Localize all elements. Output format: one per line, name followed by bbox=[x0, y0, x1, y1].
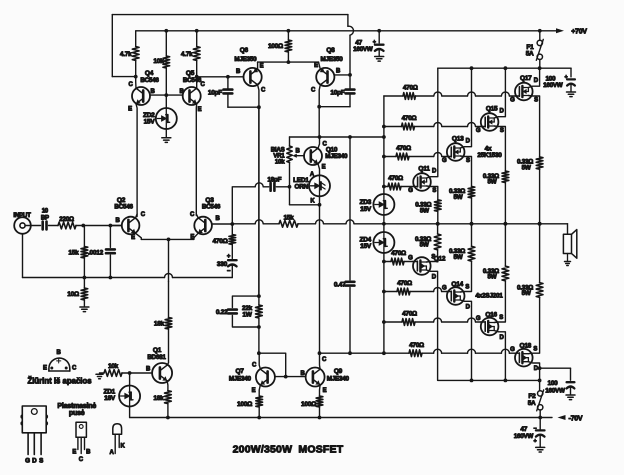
transistor Q13 2SK1530 bbox=[447, 143, 465, 161]
label E (Q10) bbox=[322, 165, 326, 171]
label 0.33ohm (Q17) bbox=[517, 159, 533, 166]
label 0.33ohm (Q14) bbox=[449, 248, 465, 255]
capacitor 330uF bbox=[228, 260, 237, 277]
label Q9 bbox=[334, 368, 343, 375]
svg-text:MJE350: MJE350 bbox=[321, 56, 344, 63]
wire ground bus bbox=[23, 274, 233, 278]
speaker bbox=[563, 224, 576, 266]
label B (Q1) bbox=[146, 367, 151, 373]
resistor 15k input bbox=[81, 226, 88, 278]
svg-text:INPUT: INPUT bbox=[13, 212, 31, 219]
svg-text:S: S bbox=[466, 158, 470, 164]
svg-text:E: E bbox=[322, 165, 326, 171]
label E (TO-126) bbox=[72, 449, 76, 455]
capacitor 0.47 bbox=[346, 137, 355, 353]
node Q18 source/bus bbox=[538, 222, 542, 226]
label BP (input cap) bbox=[41, 216, 49, 222]
capacitor 0.22 branch bbox=[228, 296, 259, 327]
input jack bbox=[14, 217, 40, 234]
label D (Q15) bbox=[500, 108, 505, 114]
svg-text:220Ω: 220Ω bbox=[59, 216, 74, 223]
label B (Q9) bbox=[300, 371, 305, 377]
wire Q15 source bbox=[494, 126, 505, 171]
node 100ohm bottom bbox=[287, 60, 291, 64]
label 10k bbox=[153, 58, 164, 65]
node base link / 10k bbox=[164, 93, 168, 97]
svg-text:+: + bbox=[373, 39, 376, 45]
node Q12 source/bus bbox=[436, 222, 440, 226]
label D (Q17) bbox=[534, 78, 539, 84]
node 10k top bbox=[164, 29, 168, 33]
label MJE340 (Q9) bbox=[327, 376, 350, 383]
svg-text:470Ω: 470Ω bbox=[402, 311, 417, 318]
svg-text:470Ω: 470Ω bbox=[403, 85, 418, 92]
transistor Q8 MJE350 bbox=[316, 62, 334, 107]
wire Q3 base to fb node bbox=[212, 223, 232, 225]
node 100ohm top bbox=[287, 29, 291, 33]
label F2 bbox=[528, 393, 536, 400]
svg-text:E: E bbox=[198, 107, 202, 113]
label 4x bbox=[485, 145, 492, 152]
svg-text:10pF: 10pF bbox=[208, 90, 222, 97]
ground (47 bottom) bbox=[536, 447, 545, 452]
resistor 4.7k (Q4 load) bbox=[132, 31, 139, 77]
wire Q15 gate row bbox=[384, 123, 481, 130]
label 160VW (top) bbox=[543, 82, 563, 89]
label 470ohm (Q11 gate) bbox=[388, 175, 403, 182]
label BD681 bbox=[147, 354, 166, 361]
label G (Q15) bbox=[476, 128, 481, 134]
label 4.7k bbox=[120, 51, 132, 58]
transistor Q7 MJE340 bbox=[256, 353, 275, 396]
label BC546 (Q4) bbox=[140, 77, 159, 84]
svg-text:5W: 5W bbox=[454, 254, 463, 261]
svg-text:100Ω: 100Ω bbox=[301, 401, 316, 408]
label E (Q4) bbox=[128, 107, 132, 113]
text Ziurint is apacios bbox=[27, 377, 92, 386]
svg-text:100Ω: 100Ω bbox=[237, 401, 252, 408]
capacitor 10pF (Q8) bbox=[319, 75, 354, 107]
wire +70V rail bbox=[136, 28, 564, 33]
node Q4 collector bbox=[134, 75, 138, 79]
label B (Q4) bbox=[150, 89, 155, 95]
transistor Q2 BC546 bbox=[122, 214, 142, 239]
svg-text:470Ω: 470Ω bbox=[397, 280, 412, 287]
node P bus Q14 bbox=[470, 379, 474, 383]
transistor Q18 2SJ201 bbox=[515, 349, 533, 367]
label S (Q17) bbox=[534, 97, 538, 103]
svg-text:5W: 5W bbox=[487, 274, 496, 281]
label S (Q11) bbox=[432, 188, 436, 194]
wire Q8 base to node bbox=[334, 74, 350, 76]
label 18pF bbox=[267, 176, 281, 183]
wire Q13 drain bbox=[460, 68, 471, 148]
svg-text:E: E bbox=[252, 388, 256, 394]
wire Q11 gate row bbox=[384, 183, 413, 190]
label Q4 bbox=[145, 70, 154, 77]
label G (TO-3P) bbox=[25, 457, 30, 464]
label 15k (input) bbox=[68, 249, 79, 256]
label S (Q14) bbox=[465, 285, 469, 291]
label C (Q10) bbox=[322, 141, 327, 147]
svg-text:−: − bbox=[534, 426, 537, 432]
svg-text:BC546: BC546 bbox=[140, 77, 159, 84]
capacitor 100/160VW (top) bbox=[567, 68, 575, 91]
label A (LED pkg) bbox=[109, 450, 114, 456]
label C (TO-126) bbox=[79, 457, 84, 463]
wire N drain bus bbox=[438, 67, 571, 69]
wire -70V rail bbox=[130, 415, 566, 420]
svg-text:+70V: +70V bbox=[571, 29, 587, 36]
svg-text:470Ω: 470Ω bbox=[213, 238, 228, 245]
wire Q16 gate row bbox=[384, 318, 481, 325]
svg-text:470Ω: 470Ω bbox=[388, 175, 403, 182]
svg-text:BC546: BC546 bbox=[183, 77, 202, 84]
svg-text:E: E bbox=[43, 366, 47, 372]
svg-text:330: 330 bbox=[217, 261, 228, 268]
resistor 100 ohm (Q7) bbox=[256, 396, 263, 418]
label D (Q14) bbox=[466, 304, 471, 310]
label ZD1 bbox=[103, 388, 115, 395]
label INPUT bbox=[13, 212, 31, 219]
node 22k bottom bbox=[257, 325, 261, 329]
node Q7 collector junction bbox=[257, 351, 261, 355]
label 10pF (Q8) bbox=[330, 90, 344, 97]
label 18k (tail) bbox=[154, 321, 165, 328]
label B (Q2) bbox=[115, 218, 120, 224]
svg-text:BC546: BC546 bbox=[202, 203, 221, 210]
wire Q18 gate row bbox=[384, 349, 515, 356]
node rowP3 bus bbox=[382, 320, 386, 324]
node speaker tap bbox=[538, 222, 542, 226]
label 470ohm (feedback) bbox=[213, 238, 228, 245]
svg-text:Žiūrint iš apačios: Žiūrint iš apačios bbox=[27, 377, 92, 386]
node drain bus Q13 bbox=[470, 66, 474, 70]
package LED bbox=[113, 424, 122, 454]
label 4.7k bbox=[181, 51, 193, 58]
resistor 100 ohm (Q9) bbox=[316, 396, 323, 418]
label - (330) bbox=[227, 269, 231, 275]
svg-text:MJE350: MJE350 bbox=[234, 56, 257, 63]
resistor 100 ohm (drivers) bbox=[285, 31, 292, 62]
label D (Q12) bbox=[432, 274, 437, 280]
node Q7 100R/rail bbox=[257, 416, 261, 420]
svg-text:5W: 5W bbox=[522, 165, 531, 172]
label BC546 (Q2) bbox=[114, 203, 133, 210]
node LED K / VR1 wire bbox=[318, 203, 322, 207]
label C (Q9) bbox=[322, 357, 327, 363]
label 220ohm bbox=[59, 216, 74, 223]
node 0.47 line top bbox=[348, 135, 352, 139]
ground (47 top) bbox=[375, 57, 384, 62]
svg-text:100Ω: 100Ω bbox=[268, 43, 283, 50]
wire tail with 18k bbox=[168, 239, 170, 281]
label G (Q16) bbox=[476, 316, 481, 322]
node 10pF to Q6 collector bbox=[257, 105, 261, 109]
wire emitter link Q2-Q3 bbox=[141, 238, 194, 240]
svg-text:BC546: BC546 bbox=[114, 203, 133, 210]
wire bias feed top bbox=[290, 136, 384, 138]
svg-text:G: G bbox=[510, 98, 515, 104]
label B (Q8) bbox=[336, 69, 341, 75]
svg-text:Q8: Q8 bbox=[326, 47, 335, 54]
wire ladder bus upper bbox=[383, 96, 385, 194]
label 15k (feedback) bbox=[283, 214, 294, 221]
label 10k (VR1) bbox=[275, 158, 285, 165]
wire LED K down bbox=[319, 196, 321, 353]
wire bootstrap top rail bbox=[112, 14, 348, 16]
svg-text:Q9: Q9 bbox=[334, 368, 343, 375]
label 15V (ZD3) bbox=[360, 206, 372, 213]
label 18V bbox=[104, 395, 116, 402]
label 5W (Q14) bbox=[454, 254, 463, 261]
node Q14 source/bus bbox=[470, 222, 474, 226]
label Q12 bbox=[434, 255, 446, 262]
label 470ohm (Q12 gate) bbox=[391, 250, 406, 257]
label S (Q15) bbox=[500, 128, 504, 134]
label S (Q12) bbox=[431, 255, 435, 261]
transistor Q6 MJE350 bbox=[244, 62, 262, 296]
wire Q11 source bbox=[427, 186, 438, 200]
label C (Q8) bbox=[311, 88, 316, 94]
svg-text:S: S bbox=[499, 315, 503, 321]
label G (Q17) bbox=[510, 98, 515, 104]
resistor 0.33 ohm (Q15) bbox=[502, 171, 509, 224]
svg-text:G: G bbox=[442, 285, 447, 291]
svg-text:S: S bbox=[465, 285, 469, 291]
svg-text:G: G bbox=[476, 128, 481, 134]
label +70V bbox=[571, 29, 587, 36]
transistor Q11 2SK1530 bbox=[413, 173, 431, 191]
label 47 (top) bbox=[355, 39, 362, 46]
svg-text:G: G bbox=[510, 347, 515, 353]
svg-text:18pF: 18pF bbox=[267, 176, 281, 183]
resistor 22k 1W bbox=[256, 296, 263, 327]
svg-text:Q13: Q13 bbox=[452, 135, 464, 142]
label G (Q18) bbox=[510, 347, 515, 353]
node Q8C/bias feed bbox=[318, 135, 322, 139]
label 5A (F1) bbox=[526, 51, 534, 58]
label VR1 bbox=[273, 152, 285, 159]
wire Q12 source bbox=[426, 250, 437, 262]
svg-text:+: + bbox=[534, 439, 537, 445]
node Q16 source/bus bbox=[504, 222, 508, 226]
label 470ohm (Q16 gate) bbox=[402, 311, 417, 318]
node Q17 source/bus bbox=[538, 222, 542, 226]
label 0.47 bbox=[334, 282, 346, 289]
wire K to Q9C (crossing bus) bbox=[0, 0, 1, 1]
capacitor 18pF bbox=[232, 183, 289, 224]
transistor Q4 BC546 bbox=[132, 77, 150, 217]
node drain bus Q15 bbox=[504, 66, 508, 70]
label 0.22 bbox=[216, 309, 228, 316]
svg-text:-70V: -70V bbox=[569, 416, 583, 423]
wire Q14 gate row bbox=[384, 288, 447, 295]
label 10k (Q1) bbox=[108, 363, 119, 370]
label 5W (Q16) bbox=[487, 274, 496, 281]
label D (Q18) bbox=[534, 366, 539, 372]
label F1 bbox=[526, 44, 534, 51]
label C (Q6) bbox=[261, 88, 266, 94]
label E (Q8) bbox=[314, 63, 318, 69]
svg-text:15V: 15V bbox=[144, 119, 156, 126]
wire jack ground drop bbox=[22, 234, 24, 278]
label 0.33ohm (Q16) bbox=[483, 268, 499, 275]
wire bus mid bbox=[316, 220, 568, 224]
label 470ohm (Q13 gate) bbox=[396, 145, 411, 152]
node emitter tail bbox=[167, 238, 171, 242]
svg-text:+: + bbox=[565, 75, 568, 81]
label Q3 bbox=[205, 197, 214, 204]
svg-text:5W: 5W bbox=[487, 179, 496, 186]
svg-text:E: E bbox=[72, 449, 76, 455]
wire ladder bus lower bbox=[383, 253, 385, 353]
label C (Q4) bbox=[128, 82, 133, 88]
svg-text:0.47: 0.47 bbox=[334, 282, 346, 289]
svg-text:10Ω: 10Ω bbox=[67, 291, 79, 298]
potentiometer VR1 10k BIAS bbox=[287, 137, 304, 205]
svg-text:Q15: Q15 bbox=[486, 105, 498, 112]
svg-text:470Ω: 470Ω bbox=[409, 342, 424, 349]
svg-text:pusė: pusė bbox=[69, 410, 85, 417]
resistor 0.33 ohm (Q13) bbox=[468, 186, 475, 223]
fuse F1 5A bbox=[536, 29, 543, 68]
label Q1 bbox=[153, 347, 162, 354]
label 5W (Q18) bbox=[522, 290, 531, 297]
label 4x2SJ201 bbox=[475, 292, 503, 299]
label 0.33ohm (Q12) bbox=[415, 236, 431, 243]
transistor Q12 2SJ201 bbox=[413, 257, 431, 275]
label 10ohm bbox=[67, 291, 79, 298]
label E (Q6) bbox=[260, 64, 264, 70]
label + (47 bottom) bbox=[534, 439, 537, 445]
label - (47 bottom) bbox=[534, 426, 537, 432]
svg-text:G: G bbox=[408, 188, 413, 194]
svg-text:Q6: Q6 bbox=[240, 47, 249, 54]
node P bus Q16 bbox=[504, 379, 508, 383]
node 15k/ground bus bbox=[83, 276, 87, 280]
label G (Q14) bbox=[442, 285, 447, 291]
label Q7 bbox=[236, 368, 245, 375]
label 160VW (top) bbox=[353, 46, 373, 53]
svg-text:G: G bbox=[25, 457, 30, 464]
label G (Q12) bbox=[408, 255, 413, 261]
wire Q8C down to bias feed bbox=[318, 107, 320, 137]
svg-text:5W: 5W bbox=[420, 242, 429, 249]
svg-text:470Ω: 470Ω bbox=[391, 250, 406, 257]
ground (10k) bbox=[96, 374, 103, 379]
svg-text:470Ω: 470Ω bbox=[396, 145, 411, 152]
wire VAS to mirror bbox=[258, 327, 260, 353]
svg-text:D: D bbox=[32, 457, 37, 464]
label 10 (input cap) bbox=[42, 209, 49, 215]
svg-text:G: G bbox=[476, 316, 481, 322]
node Q11 source/bus bbox=[436, 222, 440, 226]
resistor 0.33 ohm (Q12) bbox=[434, 224, 441, 250]
label 5W (Q11) bbox=[420, 207, 429, 214]
svg-text:BP: BP bbox=[41, 216, 49, 222]
wire Q15 drain bbox=[494, 68, 505, 118]
label 5W (Q13) bbox=[454, 194, 463, 201]
resistor 220 ohm input bbox=[58, 222, 122, 229]
label C (package) bbox=[72, 366, 77, 372]
svg-text:15k: 15k bbox=[68, 249, 79, 256]
wire bootstrap drop with hop over +70V rail bbox=[348, 15, 354, 75]
label ZD3 bbox=[359, 199, 371, 206]
label 5A (F2) bbox=[528, 400, 536, 407]
label + (100 top) bbox=[565, 75, 568, 81]
led LED1 ORN bbox=[309, 175, 330, 196]
label 470ohm (Q15 gate) bbox=[402, 115, 417, 122]
svg-text:15V: 15V bbox=[360, 206, 372, 213]
wire Q17 source bbox=[528, 96, 539, 157]
ground (10 ohm) bbox=[80, 307, 89, 312]
resistor 0.33 ohm (Q17) bbox=[536, 157, 543, 224]
svg-text:160VW: 160VW bbox=[353, 46, 373, 53]
package TO-126 bottom view bbox=[49, 358, 70, 371]
node zener mid / bus bbox=[382, 222, 386, 226]
transistor Q9 MJE340 bbox=[306, 353, 325, 396]
svg-text:18k: 18k bbox=[154, 321, 165, 328]
resistor 0.33 ohm (Q11) bbox=[434, 200, 441, 224]
wire feedback-output bus bbox=[232, 220, 279, 224]
wire Q17 gate row bbox=[384, 92, 515, 99]
label MJE350 (Q8) bbox=[321, 56, 344, 63]
label C (Q7) bbox=[252, 363, 257, 369]
node 22k top bbox=[257, 294, 261, 298]
wire Q9C to ladder bbox=[320, 352, 384, 354]
svg-text:1W: 1W bbox=[242, 311, 252, 318]
capacitor 47/160VW (top) bbox=[375, 29, 384, 56]
svg-text:S: S bbox=[534, 97, 538, 103]
label + (330) bbox=[227, 254, 231, 260]
resistor 470 ohm (feedback) bbox=[229, 224, 236, 259]
package TO-3P front view bbox=[21, 406, 47, 455]
svg-text:Q11: Q11 bbox=[418, 165, 430, 172]
node Q18 drain branch bbox=[538, 366, 542, 370]
svg-text:4.7k: 4.7k bbox=[120, 51, 132, 58]
ground (ZD2) bbox=[162, 138, 171, 143]
svg-text:BD681: BD681 bbox=[147, 354, 166, 361]
zener ZD2 15V bbox=[156, 95, 177, 137]
label ZD4 bbox=[359, 237, 371, 244]
label ORN bbox=[295, 183, 309, 190]
node drain bus F1 bbox=[538, 66, 542, 70]
label D (Q11) bbox=[432, 168, 437, 174]
svg-text:Q16: Q16 bbox=[485, 311, 497, 318]
label BC546 (Q5) bbox=[183, 77, 202, 84]
label Q14 bbox=[451, 281, 463, 288]
resistor 18k tail bbox=[165, 282, 172, 363]
wire P drain bus bbox=[438, 379, 540, 381]
transistor Q3 BC546 bbox=[194, 214, 212, 239]
svg-text:5A: 5A bbox=[526, 51, 534, 58]
title 200W/350W MOSFET bbox=[233, 444, 344, 456]
svg-text:5A: 5A bbox=[528, 400, 536, 407]
label S (TO-3P) bbox=[39, 457, 43, 464]
label 5W (Q12) bbox=[420, 242, 429, 249]
svg-text:G: G bbox=[408, 255, 413, 261]
svg-text:Q5: Q5 bbox=[186, 70, 195, 77]
label BC546 (Q3) bbox=[202, 203, 221, 210]
capacitor 100/160VW (bottom) bbox=[540, 368, 575, 394]
label S (Q16) bbox=[499, 315, 503, 321]
resistor 0.33 ohm (Q16) bbox=[502, 224, 509, 281]
label 470ohm (Q14 gate) bbox=[397, 280, 412, 287]
svg-text:E: E bbox=[128, 107, 132, 113]
label 100ohm (Q9) bbox=[301, 401, 316, 408]
svg-text:Q4: Q4 bbox=[145, 70, 154, 77]
